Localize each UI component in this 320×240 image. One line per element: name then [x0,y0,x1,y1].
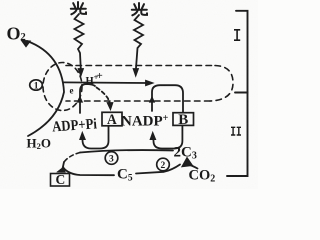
membrane line with arrow [64,81,148,84]
dashed stadium top [66,65,215,67]
circled 1 [30,80,43,90]
arch 2: NADP+ up and over to B [152,85,183,112]
U-turn arrow A back to ADP+Pi [83,126,109,149]
circled 3 [105,152,118,165]
glyph 光 #2 [132,3,147,15]
Calvin bottom edge left [64,168,115,175]
U-turn arrow B back to NADP+ [153,125,182,148]
light ray 2 zigzag [134,15,143,68]
box A [102,112,122,126]
box B [173,113,194,126]
Calvin cycle top edge [80,150,173,152]
arch 1: ADP+Pi up and over to A [80,84,95,113]
wire: O2 arrowhead [21,40,31,47]
label II [231,127,241,135]
Calvin cycle dashed left arc [64,153,80,163]
wire: H2O to O2 big arc [27,41,64,136]
CO2 branch [189,165,198,169]
Calvin bottom edge right [136,165,180,174]
bracket right [227,11,248,176]
box C [51,172,70,187]
dashed stadium right arc [210,66,233,102]
fat arrow into 2C3 [182,158,193,167]
glyph 光 #1 [71,2,86,14]
light ray 1 zigzag [75,14,84,69]
dashed oval (thylakoid left) [43,63,82,111]
label I [234,30,240,40]
arrow into box C [61,162,65,171]
circled 2 [157,158,170,171]
dashed stadium bottom [66,100,210,102]
